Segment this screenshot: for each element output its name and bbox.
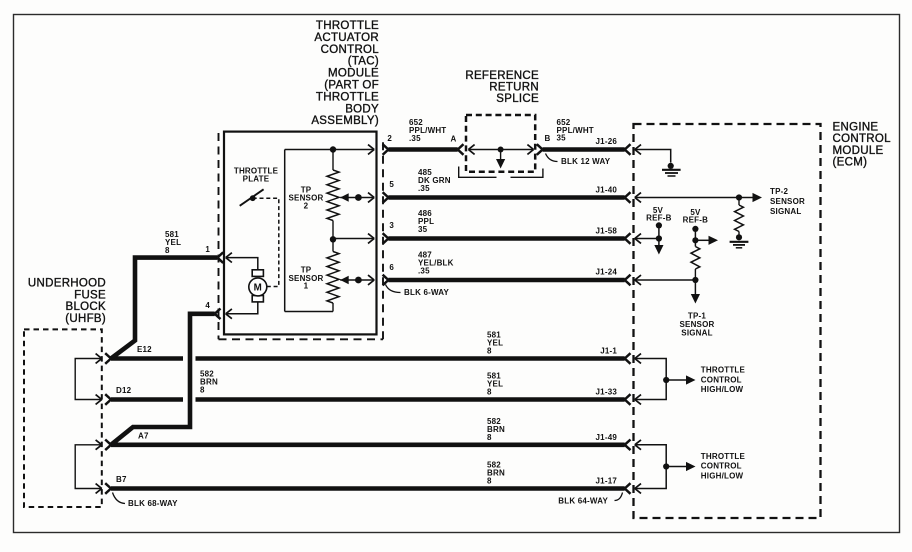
svg-text:ASSEMBLY): ASSEMBLY) [311, 115, 379, 127]
svg-text:CONTROL: CONTROL [833, 133, 892, 145]
svg-text:REFERENCE: REFERENCE [465, 70, 539, 82]
svg-text:J1-40: J1-40 [596, 186, 618, 195]
svg-text:SPLICE: SPLICE [496, 93, 539, 105]
svg-text:MODULE: MODULE [328, 68, 379, 80]
svg-text:35: 35 [418, 225, 428, 234]
svg-text:A: A [451, 135, 457, 144]
svg-text:4: 4 [205, 301, 210, 310]
svg-text:REF-B: REF-B [683, 215, 708, 224]
svg-text:1: 1 [205, 245, 210, 254]
svg-text:UNDERHOOD: UNDERHOOD [28, 278, 106, 290]
svg-text:.35: .35 [418, 184, 430, 193]
svg-text:8: 8 [200, 386, 205, 395]
svg-text:CONTROL: CONTROL [321, 44, 380, 56]
svg-text:(ECM): (ECM) [833, 157, 868, 169]
svg-text:HIGH/LOW: HIGH/LOW [701, 471, 744, 480]
svg-text:BLK 6-WAY: BLK 6-WAY [404, 288, 450, 297]
svg-text:8: 8 [165, 246, 170, 255]
svg-text:BLK 64-WAY: BLK 64-WAY [558, 497, 608, 506]
svg-text:SIGNAL: SIGNAL [770, 207, 801, 216]
svg-text:8: 8 [487, 433, 492, 442]
svg-text:B: B [545, 134, 551, 143]
svg-text:PLATE: PLATE [243, 175, 270, 184]
svg-text:B7: B7 [116, 475, 127, 484]
svg-text:(TAC): (TAC) [348, 56, 379, 68]
svg-text:8: 8 [487, 388, 492, 397]
svg-text:2: 2 [304, 202, 309, 211]
svg-text:J1-58: J1-58 [596, 227, 618, 236]
svg-text:HIGH/LOW: HIGH/LOW [701, 385, 744, 394]
svg-text:J1-24: J1-24 [596, 268, 618, 277]
svg-text:35: 35 [557, 134, 567, 143]
svg-text:MODULE: MODULE [833, 145, 884, 157]
svg-text:M: M [254, 283, 262, 294]
svg-text:2: 2 [387, 134, 392, 143]
svg-text:THROTTLE: THROTTLE [701, 366, 746, 375]
svg-text:FUSE: FUSE [74, 289, 106, 301]
svg-text:(PART OF: (PART OF [324, 80, 379, 92]
svg-text:.35: .35 [418, 267, 430, 276]
svg-text:.35: .35 [409, 134, 421, 143]
svg-text:J1-17: J1-17 [596, 477, 618, 486]
svg-text:D12: D12 [116, 386, 132, 395]
svg-text:ACTUATOR: ACTUATOR [314, 32, 379, 44]
svg-text:THROTTLE: THROTTLE [316, 91, 379, 103]
svg-text:8: 8 [487, 347, 492, 356]
svg-text:6: 6 [389, 263, 394, 272]
svg-text:BLK 12 WAY: BLK 12 WAY [561, 157, 611, 166]
svg-text:1: 1 [304, 282, 309, 291]
svg-text:A7: A7 [138, 432, 149, 441]
svg-text:J1-49: J1-49 [596, 433, 618, 442]
svg-text:TP-2: TP-2 [770, 187, 788, 196]
svg-text:BLK 68-WAY: BLK 68-WAY [128, 499, 178, 508]
svg-text:J1-26: J1-26 [596, 137, 618, 146]
svg-text:CONTROL: CONTROL [701, 375, 742, 384]
svg-text:E12: E12 [137, 345, 152, 354]
svg-text:THROTTLE: THROTTLE [701, 452, 746, 461]
svg-text:3: 3 [389, 221, 394, 230]
svg-text:REF-B: REF-B [646, 214, 671, 223]
svg-text:ENGINE: ENGINE [833, 122, 879, 134]
svg-text:BODY: BODY [345, 103, 379, 115]
svg-text:RETURN: RETURN [489, 82, 539, 94]
svg-text:SENSOR: SENSOR [770, 197, 805, 206]
svg-text:J1-1: J1-1 [600, 347, 617, 356]
svg-text:CONTROL: CONTROL [701, 462, 742, 471]
svg-text:J1-33: J1-33 [596, 388, 618, 397]
svg-text:BLOCK: BLOCK [66, 301, 107, 313]
svg-text:THROTTLE: THROTTLE [316, 20, 379, 32]
svg-text:8: 8 [487, 477, 492, 486]
svg-text:SIGNAL: SIGNAL [681, 329, 712, 338]
svg-text:5: 5 [389, 180, 394, 189]
svg-text:(UHFB): (UHFB) [65, 313, 106, 325]
